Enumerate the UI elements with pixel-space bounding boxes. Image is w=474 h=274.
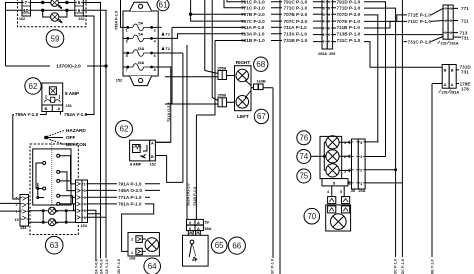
- svg-text:231A: 231A: [450, 42, 459, 46]
- svg-text:707B P-2.0: 707B P-2.0: [284, 12, 308, 17]
- svg-text:761A P-1.0: 761A P-1.0: [118, 202, 142, 207]
- svg-text:791C P-1.0: 791C P-1.0: [241, 0, 265, 4]
- svg-text:5: 5: [323, 13, 325, 17]
- svg-text:5: 5: [126, 54, 128, 58]
- svg-text:713A P-1.0: 713A P-1.0: [241, 32, 265, 37]
- svg-text:B: B: [151, 155, 154, 159]
- svg-text:7: 7: [323, 40, 325, 44]
- svg-text:5: 5: [16, 197, 18, 201]
- svg-text:108: 108: [129, 257, 135, 261]
- svg-text:162: 162: [19, 17, 25, 21]
- svg-text:59: 59: [205, 221, 209, 225]
- svg-text:771D P-1.0: 771D P-1.0: [337, 6, 361, 11]
- svg-text:209A: 209A: [318, 52, 327, 56]
- svg-text:152: 152: [150, 162, 156, 166]
- svg-text:65: 65: [215, 241, 224, 250]
- svg-text:3: 3: [450, 7, 452, 11]
- svg-text:711A P-1.0: 711A P-1.0: [284, 25, 308, 30]
- svg-text:2: 2: [16, 203, 18, 207]
- svg-text:1: 1: [131, 251, 133, 255]
- svg-text:5: 5: [78, 0, 81, 5]
- svg-text:154: 154: [20, 226, 27, 230]
- svg-text:731: 731: [461, 35, 469, 40]
- svg-text:B: B: [444, 69, 447, 73]
- svg-text:7: 7: [24, 0, 27, 5]
- svg-text:64: 64: [148, 262, 157, 271]
- svg-text:5A: 5A: [138, 33, 143, 37]
- svg-text:7: 7: [16, 210, 18, 214]
- svg-text:291A: 291A: [450, 91, 459, 95]
- svg-text:771A P-1.0: 771A P-1.0: [118, 195, 142, 200]
- svg-text:63: 63: [50, 241, 59, 250]
- svg-text:2: 2: [445, 31, 447, 35]
- svg-text:163B: 163B: [257, 79, 266, 83]
- svg-text:1: 1: [360, 155, 362, 159]
- svg-text:771E P-1.0: 771E P-1.0: [408, 13, 432, 18]
- svg-text:3: 3: [344, 169, 346, 173]
- svg-text:3A Y-0.8: 3A Y-0.8: [99, 259, 103, 274]
- svg-text:3C P-1.0: 3C P-1.0: [394, 259, 398, 274]
- svg-text:62: 62: [29, 82, 38, 91]
- svg-text:152: 152: [116, 78, 122, 82]
- svg-text:7: 7: [328, 40, 330, 44]
- svg-text:66: 66: [232, 241, 241, 250]
- svg-text:15A: 15A: [137, 47, 144, 51]
- svg-text:711A P-1.0: 711A P-1.0: [241, 25, 265, 30]
- svg-text:59A: 59A: [205, 227, 212, 231]
- svg-text:731B P-1.0: 731B P-1.0: [241, 38, 265, 43]
- svg-text:731B P-1.0: 731B P-1.0: [193, 187, 197, 206]
- svg-text:771C P-1.0: 771C P-1.0: [284, 6, 308, 11]
- svg-text:61: 61: [159, 1, 168, 10]
- svg-text:2: 2: [323, 27, 325, 31]
- svg-text:771C P-1.0: 771C P-1.0: [241, 6, 265, 11]
- svg-text:LEFT: LEFT: [237, 114, 249, 119]
- svg-text:707E P-1.0: 707E P-1.0: [337, 19, 361, 24]
- svg-text:B: B: [451, 69, 454, 73]
- svg-text:154: 154: [81, 224, 88, 228]
- svg-text:231: 231: [441, 42, 447, 46]
- svg-text:1: 1: [84, 183, 86, 187]
- svg-text:745A O-2.0: 745A O-2.0: [118, 188, 142, 193]
- svg-text:T2: T2: [166, 33, 170, 37]
- svg-text:8: 8: [333, 181, 335, 185]
- svg-text:8E Y-1.0: 8E Y-1.0: [431, 260, 435, 274]
- svg-text:754A Y-1.0: 754A Y-1.0: [64, 112, 88, 117]
- svg-text:0: 0: [189, 227, 191, 231]
- svg-text:1: 1: [360, 182, 362, 186]
- svg-text:A: A: [451, 83, 454, 87]
- svg-text:155B: 155B: [217, 66, 226, 70]
- svg-text:2: 2: [328, 27, 330, 31]
- svg-text:2: 2: [154, 28, 156, 32]
- svg-text:291: 291: [442, 91, 448, 95]
- svg-text:137O/O-2.0: 137O/O-2.0: [56, 64, 81, 69]
- svg-text:3: 3: [84, 189, 86, 193]
- svg-text:755A Y-1.0: 755A Y-1.0: [15, 112, 39, 117]
- svg-text:B: B: [45, 107, 48, 111]
- svg-text:707C P-2.0: 707C P-2.0: [241, 19, 265, 24]
- svg-text:2: 2: [344, 155, 346, 159]
- svg-text:151: 151: [66, 104, 72, 108]
- svg-text:1: 1: [323, 33, 325, 37]
- svg-text:76: 76: [299, 134, 308, 143]
- svg-text:3: 3: [126, 39, 128, 43]
- svg-text:6: 6: [328, 20, 330, 24]
- svg-text:2: 2: [360, 169, 362, 173]
- svg-text:A: A: [197, 227, 200, 231]
- svg-text:8: 8: [323, 6, 325, 10]
- svg-text:2: 2: [131, 238, 133, 242]
- svg-text:711: 711: [461, 18, 469, 23]
- svg-text:6: 6: [154, 54, 156, 58]
- svg-text:1A Y-1.0: 1A Y-1.0: [105, 259, 109, 274]
- svg-text:8 AMP: 8 AMP: [130, 162, 142, 166]
- svg-text:711B P-1.0: 711B P-1.0: [337, 25, 361, 30]
- svg-text:731: 731: [461, 69, 469, 74]
- svg-text:59: 59: [51, 34, 60, 43]
- svg-text:7: 7: [445, 7, 447, 11]
- svg-text:1B P-1.0: 1B P-1.0: [117, 259, 121, 274]
- svg-text:771: 771: [461, 6, 469, 11]
- svg-text:A: A: [197, 221, 200, 225]
- svg-text:707D P-2.0: 707D P-2.0: [337, 12, 361, 17]
- svg-text:707B P-2.0: 707B P-2.0: [241, 12, 265, 17]
- svg-text:791C P-1.0: 791C P-1.0: [284, 0, 308, 4]
- svg-text:7: 7: [126, 68, 128, 72]
- svg-text:5: 5: [84, 216, 86, 220]
- svg-text:711C P-1.0: 711C P-1.0: [408, 19, 432, 24]
- svg-text:RIGHT: RIGHT: [236, 60, 251, 65]
- svg-text:68: 68: [256, 60, 265, 69]
- svg-text:26: 26: [351, 189, 355, 193]
- svg-text:739A P-1.0: 739A P-1.0: [115, 11, 119, 30]
- svg-text:5A: 5A: [138, 22, 143, 26]
- svg-text:1: 1: [328, 33, 330, 37]
- svg-text:5: 5: [340, 190, 342, 194]
- svg-text:1: 1: [126, 28, 128, 32]
- svg-text:A: A: [151, 142, 154, 146]
- svg-text:2C P-1.0: 2C P-1.0: [401, 259, 405, 274]
- svg-text:15A: 15A: [137, 61, 144, 65]
- svg-text:A: A: [444, 83, 447, 87]
- svg-text:2A Y-0.8: 2A Y-0.8: [94, 259, 98, 274]
- svg-text:791A P-1.0: 791A P-1.0: [118, 181, 142, 186]
- svg-text:162: 162: [78, 17, 84, 21]
- svg-text:707C P-2.0: 707C P-2.0: [284, 19, 308, 24]
- svg-text:731C P-1.0: 731C P-1.0: [337, 38, 361, 43]
- svg-text:713B P-1.0: 713B P-1.0: [337, 32, 361, 37]
- svg-text:5: 5: [328, 13, 330, 17]
- svg-text:3: 3: [450, 31, 452, 35]
- svg-text:T2: T2: [166, 47, 170, 51]
- svg-text:26A: 26A: [359, 189, 366, 193]
- svg-text:OFF: OFF: [66, 135, 76, 140]
- svg-text:67: 67: [257, 112, 266, 121]
- svg-text:178: 178: [461, 86, 469, 91]
- svg-text:62: 62: [120, 125, 129, 134]
- svg-text:731B P-1.0: 731B P-1.0: [284, 38, 308, 43]
- svg-text:8: 8: [328, 6, 330, 10]
- svg-text:155B: 155B: [217, 93, 226, 97]
- svg-text:6: 6: [323, 20, 325, 24]
- svg-text:4: 4: [327, 190, 330, 194]
- svg-text:731C P-1.0: 731C P-1.0: [408, 39, 432, 44]
- svg-text:HAZARD: HAZARD: [66, 128, 86, 133]
- svg-text:A: A: [58, 107, 61, 111]
- svg-text:8: 8: [84, 209, 86, 213]
- svg-text:713A P-1.0: 713A P-1.0: [284, 32, 308, 37]
- svg-text:74: 74: [299, 152, 308, 161]
- svg-text:791D P-1.0: 791D P-1.0: [337, 0, 361, 4]
- svg-text:75: 75: [299, 172, 308, 181]
- svg-text:0: 0: [189, 221, 191, 225]
- svg-text:563A OG-1.0: 563A OG-1.0: [186, 184, 190, 206]
- svg-text:209: 209: [329, 52, 335, 56]
- svg-text:6: 6: [78, 8, 81, 13]
- svg-text:BEACON: BEACON: [66, 142, 87, 147]
- svg-text:8: 8: [154, 68, 156, 72]
- svg-text:70: 70: [307, 212, 316, 221]
- svg-text:3C P-1.0: 3C P-1.0: [271, 259, 275, 274]
- svg-text:10: 10: [15, 218, 19, 222]
- svg-text:9: 9: [84, 196, 86, 200]
- svg-text:8 AMP: 8 AMP: [65, 91, 79, 96]
- svg-text:1: 1: [344, 141, 346, 145]
